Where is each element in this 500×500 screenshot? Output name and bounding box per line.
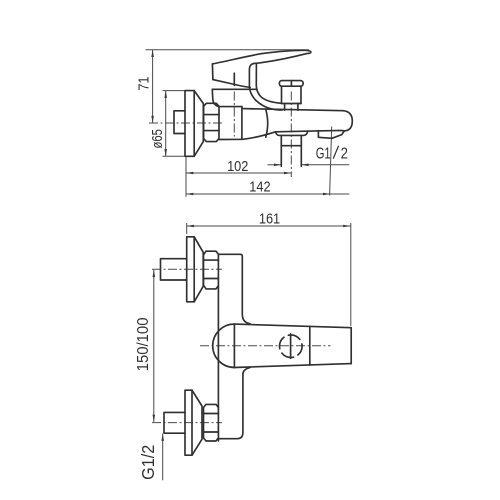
svg-text:ø65: ø65 [148,129,165,148]
svg-text:71: 71 [135,76,152,90]
svg-text:150/100: 150/100 [135,318,153,372]
svg-text:142: 142 [249,177,270,194]
svg-text:G1/2: G1/2 [138,445,158,480]
svg-text:2: 2 [341,145,348,162]
svg-text:102: 102 [227,157,248,174]
svg-text:G1: G1 [316,145,331,162]
svg-text:161: 161 [259,210,280,227]
